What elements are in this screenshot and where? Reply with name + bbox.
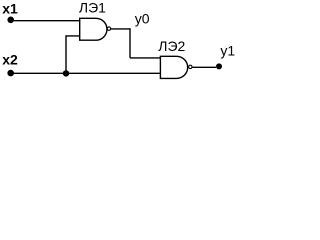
- svg-text:ЛЭ1: ЛЭ1: [79, 0, 106, 15]
- wire y1 from bubble: [192, 66, 216, 68]
- svg-text:y0: y0: [135, 10, 150, 26]
- svg-text:x2: x2: [2, 52, 18, 68]
- terminal node x1: [7, 17, 14, 24]
- terminal node x2: [7, 70, 14, 77]
- inversion bubble ЛЭ1: [107, 27, 110, 30]
- NAND gate ЛЭ1 body: [80, 18, 107, 40]
- wire y0 to ЛЭ2 top input: [130, 57, 160, 59]
- wire y0 horizontal from bubble: [111, 28, 130, 30]
- NAND gate ЛЭ2 body: [160, 56, 187, 78]
- wire y0 vertical drop: [129, 28, 131, 58]
- wire x1 to ЛЭ1 top input: [11, 20, 80, 22]
- inversion bubble ЛЭ2: [189, 65, 192, 68]
- wire junction riser to ЛЭ1 bottom input: [66, 36, 80, 73]
- terminal node y1: [216, 63, 222, 69]
- junction node on x2 wire: [63, 70, 69, 76]
- svg-text:ЛЭ2: ЛЭ2: [158, 38, 185, 54]
- wire x2 to ЛЭ2 bottom input: [11, 72, 161, 74]
- svg-text:y1: y1: [220, 43, 235, 59]
- svg-text:x1: x1: [2, 0, 18, 16]
